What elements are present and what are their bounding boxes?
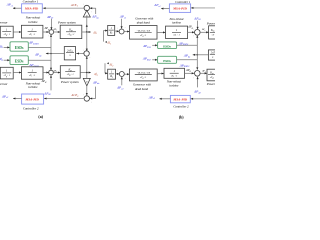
wire govdb2 to turb2b [157, 73, 164, 75]
svg-text:(b): (b) [179, 116, 184, 120]
wire tie (b) stub [193, 54, 209, 56]
governor G1 (a) box [0, 26, 13, 38]
wire ACE1 line [42, 7, 84, 9]
summer governor sum 2 (b) [119, 72, 124, 77]
wire ACE2 line [44, 98, 84, 100]
svg-text:s: s [212, 56, 213, 59]
node df2 (b) label [107, 62, 109, 64]
wire esd1b input [152, 44, 157, 46]
wire df2 feedback into 1/R2 [104, 63, 106, 73]
wire govdb1 to turb1b [157, 31, 165, 33]
wire df1 down to tie sum [86, 32, 88, 51]
svg-text:Controller 2: Controller 2 [23, 106, 39, 110]
gain B1 (a) triangle [83, 10, 90, 17]
svg-text:Power system: Power system [60, 80, 79, 84]
wire ACE1 (b) from right edge [191, 7, 215, 9]
wire esd1 output [28, 46, 51, 48]
summer power sum 1 (b) [195, 30, 201, 36]
wire 1/R2 to govsum2 [116, 73, 120, 75]
svg-text:Power system: Power system [206, 82, 215, 86]
controller C1 (b) MSA-PID box [169, 4, 190, 13]
svg-text:Power system: Power system [206, 22, 215, 26]
svg-text:Controller 2: Controller 2 [173, 105, 189, 109]
svg-text:Controller 1: Controller 1 [23, 0, 39, 4]
svg-text:Non-reheat: Non-reheat [25, 16, 41, 20]
svg-text:Power system: Power system [57, 20, 76, 24]
svg-text:Governor: Governor [0, 82, 8, 86]
svg-text:ESDs: ESDs [15, 59, 24, 63]
summer ACE2 (a) [84, 96, 89, 101]
svg-text:turbine: turbine [172, 21, 182, 25]
energy storage ESD2 (a) box [10, 56, 28, 65]
wire dPtie stub to ACE1 [90, 7, 96, 9]
wire df2 up into tie sum [86, 56, 88, 72]
svg-text:dead band: dead band [137, 20, 150, 24]
tie-line block 2piT12/s [64, 47, 75, 60]
node dPd2 (b) stub [197, 77, 199, 88]
wire powersum1b to powersys1b [200, 31, 208, 33]
svg-text:turbine: turbine [28, 85, 38, 89]
turbine T2 (a) box [21, 67, 43, 79]
node df1 (b) label [105, 41, 107, 43]
wire B1 input from df1 [86, 17, 88, 32]
wire turb2 to sum2 [43, 72, 49, 74]
power system P2 (a) box [60, 66, 80, 79]
controller C1 (a) MSA-PID box [22, 4, 43, 13]
wire turb2b to powersum2b [185, 72, 195, 74]
summer power sum 1 (a) [49, 30, 54, 35]
wire controller2(b) output stub [159, 98, 170, 100]
node dPd2 load stub [50, 75, 52, 90]
wire df1 output [82, 31, 91, 33]
energy storage ESD1 (a) box [10, 42, 28, 51]
wire esd1b output [177, 44, 198, 46]
energy storage ESD1 (b) box [158, 42, 177, 49]
svg-text:ESDs: ESDs [163, 45, 171, 49]
summer power sum 2 (b) [195, 71, 201, 77]
svg-text:turbine: turbine [169, 83, 179, 87]
wire gov1 to turb1 [13, 31, 21, 33]
summer power sum 2 (a) [49, 70, 54, 75]
svg-text:ESDs: ESDs [15, 46, 24, 50]
summer ACE1 (a) [84, 5, 89, 10]
svg-text:(a): (a) [38, 115, 43, 119]
droop 1/R2 (b) box [108, 69, 116, 79]
svg-text:s: s [69, 54, 70, 57]
svg-text:Governor: Governor [0, 20, 8, 24]
governor dead band GDB2 (b) box [129, 69, 157, 81]
power system P2 (b) box (clipped) [207, 69, 217, 81]
wire esd2b input [152, 59, 157, 61]
wire controller2(a) output stub [13, 98, 21, 100]
wire dPtie stub to ACE2 [95, 87, 97, 99]
wire tie output left stub [46, 53, 64, 55]
svg-text:MSA-PID: MSA-PID [172, 7, 187, 11]
wire turb1b to powersum1b [188, 31, 195, 33]
gain B2 (a) triangle [86, 73, 88, 79]
wire left trunk [50, 34, 52, 70]
droop 1/R1 (b) box [108, 25, 115, 35]
controller C2 (a) MSA-PID box [22, 94, 44, 104]
energy storage ESD2 (b) box [158, 56, 177, 63]
svg-text:−(0.2/π)s+0.8: −(0.2/π)s+0.8 [137, 72, 151, 75]
controller C2 (b) MSA-PID box [170, 95, 190, 102]
power system P1 (b) box (clipped) [209, 26, 217, 39]
turbine T1 (b) box [166, 26, 188, 38]
svg-text:Controller 1: Controller 1 [175, 0, 191, 4]
wire right trunk (b) [196, 35, 198, 70]
wire sum2 to powersys2 [53, 72, 60, 74]
turbine T1 (a) box [21, 25, 43, 38]
summer tie (a) [84, 51, 89, 56]
summer governor sum 1 (b) [119, 29, 124, 34]
wire tiesum to tiebox [76, 53, 84, 55]
wire ACE2 (b) from right edge [190, 98, 215, 100]
wire powersum2b to powersys2b [200, 72, 207, 74]
wire df2 output [80, 72, 90, 74]
governor dead band GDB1 (b) box [130, 26, 158, 40]
svg-text:−(0.2/π)s+0.8: −(0.2/π)s+0.8 [136, 29, 150, 32]
wire govsum1 to govdb1 [124, 31, 129, 33]
svg-text:MSA-PID: MSA-PID [172, 98, 187, 102]
turbine T2 (b) box [164, 68, 185, 78]
wire esd2 output [28, 59, 51, 61]
svg-text:ESDs: ESDs [163, 59, 171, 63]
tie-line block (b) 2piT12/s (clipped) [208, 50, 216, 60]
wire 1/R1 to govsum1 [115, 30, 119, 32]
svg-text:dead band: dead band [135, 87, 148, 91]
svg-text:MSA-PID: MSA-PID [25, 97, 40, 101]
svg-text:2πT: 2πT [211, 52, 215, 55]
wire turb1 to sum1 [43, 31, 49, 33]
power system P1 (a) box [60, 25, 82, 38]
wire govsum2 to govdb2 [124, 73, 129, 75]
node dPc2 (b) stub into govsum2 [121, 77, 123, 85]
wire controller1(a) output stub [13, 7, 22, 9]
wire gov2 to turb2 [13, 72, 21, 74]
wire B2 to ACE2 sum [86, 86, 88, 95]
wire df1 feedback into 1/R1 [103, 30, 107, 32]
svg-text:MSA-PID: MSA-PID [24, 7, 39, 11]
svg-text:turbine: turbine [28, 20, 38, 24]
wire controller1(b) output stub [161, 8, 169, 10]
wire sum1 to powersys1 [54, 31, 61, 33]
wire esd2b output [177, 59, 198, 61]
governor G2 (a) box [0, 67, 13, 79]
